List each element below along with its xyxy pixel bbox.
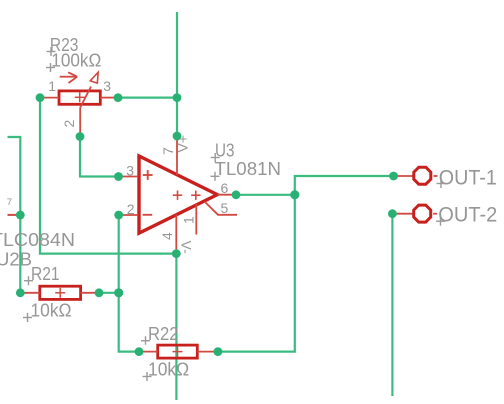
svg-text:6: 6 xyxy=(221,180,229,196)
grey origin cross R23 name xyxy=(46,47,56,72)
junction opamp pin2 xyxy=(114,211,123,220)
junction R21 net T xyxy=(114,288,123,297)
origin cross R21 xyxy=(55,292,65,294)
pin 2 stub xyxy=(119,214,138,216)
junction R22 left xyxy=(135,347,144,356)
junction output T xyxy=(290,190,299,199)
svg-text:OUT-2: OUT-2 xyxy=(438,203,497,226)
grey origin cross OUT-1 xyxy=(437,179,446,188)
svg-text:7: 7 xyxy=(7,197,12,208)
pin 5 stub xyxy=(206,203,238,215)
pin 1 stub xyxy=(195,204,197,235)
wiper arrow of R23 xyxy=(80,87,91,108)
wire U2B output stub vertical on left xyxy=(8,137,21,293)
origin cross R23 xyxy=(75,96,85,98)
grey origin cross R22 xyxy=(141,336,152,381)
wire from R23 pin3 to top vertical xyxy=(118,96,177,98)
wire from R23 wiper pin2 to opamp pin3 xyxy=(80,137,119,177)
junction OUT-1 xyxy=(389,172,398,181)
wire OUT-2 vertical down xyxy=(391,214,393,396)
svg-text:R22: R22 xyxy=(148,323,179,344)
junction opamp pin4 xyxy=(172,249,181,258)
resistor R21 xyxy=(21,286,98,299)
junction R21 right xyxy=(95,288,104,297)
svg-text:10kΩ: 10kΩ xyxy=(148,359,189,380)
junction top T xyxy=(173,93,182,102)
svg-text:V-: V- xyxy=(179,241,195,255)
junction R23 pin3 xyxy=(114,93,123,102)
junction U2B output xyxy=(16,211,25,220)
op-amp U2B output stub (clipped at left) xyxy=(8,214,19,216)
wire net N$ top vertical into junctions xyxy=(176,12,178,136)
pin 4 stub xyxy=(175,215,177,254)
svg-text:100kΩ: 100kΩ xyxy=(51,50,101,71)
connector OUT-2 xyxy=(393,205,437,222)
svg-text:2: 2 xyxy=(61,120,77,128)
svg-text:4: 4 xyxy=(159,232,175,240)
pin 3 stub xyxy=(119,176,138,178)
junction pin7 xyxy=(173,132,182,141)
svg-text:5: 5 xyxy=(221,200,229,216)
pin 7 stub xyxy=(176,136,178,175)
svg-text:1: 1 xyxy=(48,78,56,94)
svg-text:3: 3 xyxy=(103,78,111,94)
connector OUT-1 xyxy=(394,167,438,184)
origin cross R22 xyxy=(173,351,183,353)
minus input mark xyxy=(143,214,153,216)
wire feedback output down to R22 right xyxy=(218,195,295,352)
grey origin cross OUT-2 xyxy=(436,217,445,226)
grey origin cross U3 xyxy=(211,153,220,181)
junction opamp pin6 xyxy=(232,190,241,199)
wire from pin4 junction down to bottom xyxy=(175,254,177,400)
svg-text:U2B: U2B xyxy=(0,249,32,270)
svg-text:10kΩ: 10kΩ xyxy=(31,300,72,321)
svg-text:OUT-1: OUT-1 xyxy=(439,166,497,189)
adjust arrow of R23 xyxy=(60,76,76,78)
resistor R22 xyxy=(139,345,214,358)
svg-text:1: 1 xyxy=(181,216,197,224)
junction R21 left xyxy=(16,288,25,297)
junction OUT-2 xyxy=(388,209,397,218)
wire from R23 pin1 down and across to opamp pin4 xyxy=(40,98,176,254)
svg-text:2: 2 xyxy=(127,201,135,217)
plus input mark xyxy=(143,174,153,176)
svg-text:3: 3 xyxy=(126,163,134,179)
svg-text:TLC084N: TLC084N xyxy=(0,229,75,250)
junction R22 right xyxy=(214,347,223,356)
pin 6 stub xyxy=(217,194,236,196)
wire output up to OUT-1 xyxy=(295,176,394,195)
junction R23 pin2 xyxy=(76,132,85,141)
svg-text:TL081N: TL081N xyxy=(215,158,282,179)
wire R21 right pin to vertical xyxy=(99,292,119,294)
junction opamp pin3 xyxy=(114,172,123,181)
potentiometer R23 xyxy=(41,72,116,136)
junction R23 pin1 xyxy=(36,93,45,102)
origin cross U3 gate xyxy=(173,194,182,196)
svg-text:R21: R21 xyxy=(31,263,60,284)
op-amp U3 xyxy=(119,136,237,254)
grey origin cross R21 xyxy=(23,276,33,322)
wire from opamp pin2 down to R22 left xyxy=(119,215,139,352)
wire opamp pin6 output xyxy=(236,194,295,196)
